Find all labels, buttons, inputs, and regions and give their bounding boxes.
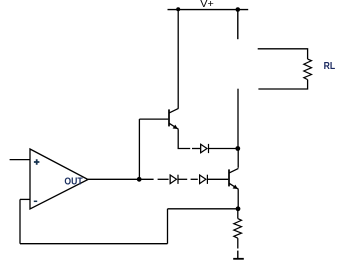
wire Q1 base [139,118,168,120]
wire V+ right stub [237,10,239,40]
wire RL bottom [258,80,307,89]
wire feedback to inverting input [19,199,21,243]
wire op-amp noninverting input [10,159,30,161]
svg-text:RL: RL [324,61,336,72]
wire Q1 base to output node [138,119,140,179]
transistor Q2 [229,168,238,189]
wire junction to Q2 collector [237,149,239,168]
diode D2 [200,175,208,184]
wire D1 cathode stub [178,178,187,180]
wire V+ rail to Q1 collector [177,10,179,109]
wire D3 cathode to right rail [209,148,238,150]
node V+ left junction [176,7,180,11]
wire V+ rail [168,9,249,11]
wire RL top [258,49,308,59]
resistor R1 [234,209,242,249]
ground [233,251,244,259]
resistor RL [304,59,312,80]
wire right rail upper [237,89,239,149]
node feedback junction [236,206,241,211]
transistor Q1 [169,108,178,129]
wire feedback left vertical [167,209,169,244]
node output junction [137,177,142,182]
node V+ right junction [236,7,241,12]
wire feedback bottom [20,243,168,245]
op-amp U1 [30,149,88,209]
wire Q1 emitter down [178,129,190,148]
wire feedback top [168,208,239,210]
node D3 / Q2 collector junction [235,146,240,151]
wire Q2 emitter down [237,189,239,209]
diode D1 [170,175,178,184]
wire output to D1 anode [158,178,169,180]
wire op-amp output [88,178,154,180]
svg-text:OUT: OUT [64,176,82,187]
svg-text:V+: V+ [200,0,214,10]
wire D2 cathode to Q2 base [207,178,228,180]
diode D3 [201,144,209,153]
wire to diode D3 anode [192,148,200,150]
wire to D2 anode [191,178,198,180]
wire op-amp inverting input [20,198,30,200]
